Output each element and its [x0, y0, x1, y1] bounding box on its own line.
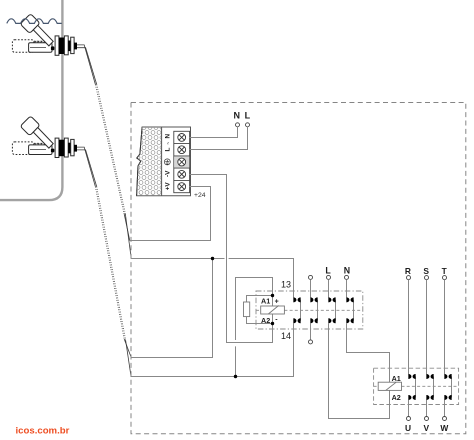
wire L pole to K2 A2 — [329, 323, 390, 418]
svg-text:N: N — [234, 111, 241, 121]
svg-text:A2: A2 — [261, 316, 270, 325]
svg-text:14: 14 — [281, 331, 291, 341]
svg-text:U: U — [405, 423, 411, 433]
wire N to PSU — [190, 127, 238, 138]
mains terminal N — [236, 123, 240, 127]
K2 pole S — [427, 280, 434, 417]
level switch S1 (upper float sensor) — [12, 14, 77, 56]
relay K1 coil — [272, 296, 274, 324]
wire N pole to K2 A1 — [347, 323, 390, 382]
svg-text:+: + — [275, 298, 279, 305]
svg-text:L: L — [325, 266, 331, 276]
K1 contact pole 2 (spare) — [309, 275, 313, 279]
svg-text:V: V — [424, 423, 430, 433]
K1 contact pole 1 — [300, 300, 302, 321]
mechanical link (dashed) — [256, 309, 363, 311]
wire L to PSU — [190, 127, 248, 150]
contactor K2 coil — [378, 382, 401, 390]
svg-text:W: W — [440, 423, 448, 433]
pivot — [51, 46, 54, 50]
svg-text:A2: A2 — [392, 393, 401, 402]
cable from S2 (conductor a) — [77, 147, 131, 358]
tank wall — [0, 0, 62, 200]
wire S1 to contact 13 (with hop over -V wire) — [131, 259, 293, 298]
svg-text:R: R — [405, 266, 411, 276]
wire junction to S2 — [131, 259, 212, 358]
float arm — [33, 25, 53, 46]
level switch S2 (lower float sensor) — [12, 116, 77, 158]
wire bus to relay A1 (hops over A2 wire) — [236, 278, 273, 377]
water level — [7, 19, 62, 24]
svg-text:A1: A1 — [261, 296, 270, 305]
node A2 — [271, 322, 274, 325]
power supply terminal strip — [174, 131, 190, 192]
wire +V to S1 — [130, 187, 211, 241]
ground symbol — [164, 159, 170, 165]
cable from S2 (conductor b) — [77, 150, 131, 377]
svg-text:~: ~ — [166, 142, 171, 145]
svg-text:-V: -V — [165, 170, 172, 177]
node A1 — [271, 294, 274, 297]
svg-text:A1: A1 — [392, 374, 401, 383]
motor terminals U V W — [407, 417, 411, 421]
svg-text:N: N — [165, 134, 172, 139]
float (raised) — [20, 14, 40, 34]
svg-text:13: 13 — [281, 280, 291, 290]
svg-text:N: N — [344, 266, 350, 276]
wire 14 bus — [131, 323, 294, 376]
node junction A1 bus — [234, 375, 237, 378]
contactor K2 outline (dashed) — [374, 368, 459, 404]
wall fitting — [55, 36, 59, 55]
K2 mechanical link — [374, 385, 459, 387]
cable from S1 (conductor b) — [77, 48, 131, 259]
control panel boundary (dashed) — [131, 103, 466, 434]
svg-text:+24: +24 — [194, 192, 206, 199]
K2 pole T — [445, 280, 452, 417]
terminal labels N L gnd -V +V — [165, 134, 172, 191]
K2 pole R — [409, 280, 416, 417]
terminal screws — [178, 134, 186, 191]
power supply U1 — [137, 127, 191, 196]
mains terminal L — [246, 123, 250, 127]
svg-text:icos.com.br: icos.com.br — [16, 425, 70, 436]
svg-text:+V: +V — [165, 182, 172, 191]
node junction S1/S2 — [211, 257, 214, 260]
svg-text:L: L — [245, 111, 251, 121]
resistor branch of K1 — [247, 296, 273, 324]
wire -V to relay A2 — [190, 175, 273, 343]
float alternate position (dashed) — [12, 40, 33, 53]
svg-text:T: T — [442, 266, 448, 276]
svg-text:L: L — [165, 148, 172, 152]
mounting stem — [29, 43, 52, 53]
svg-text:S: S — [423, 266, 429, 276]
cable from S1 (conductor a) — [77, 45, 130, 241]
relay K1 outline (dash-dot) — [256, 291, 363, 329]
